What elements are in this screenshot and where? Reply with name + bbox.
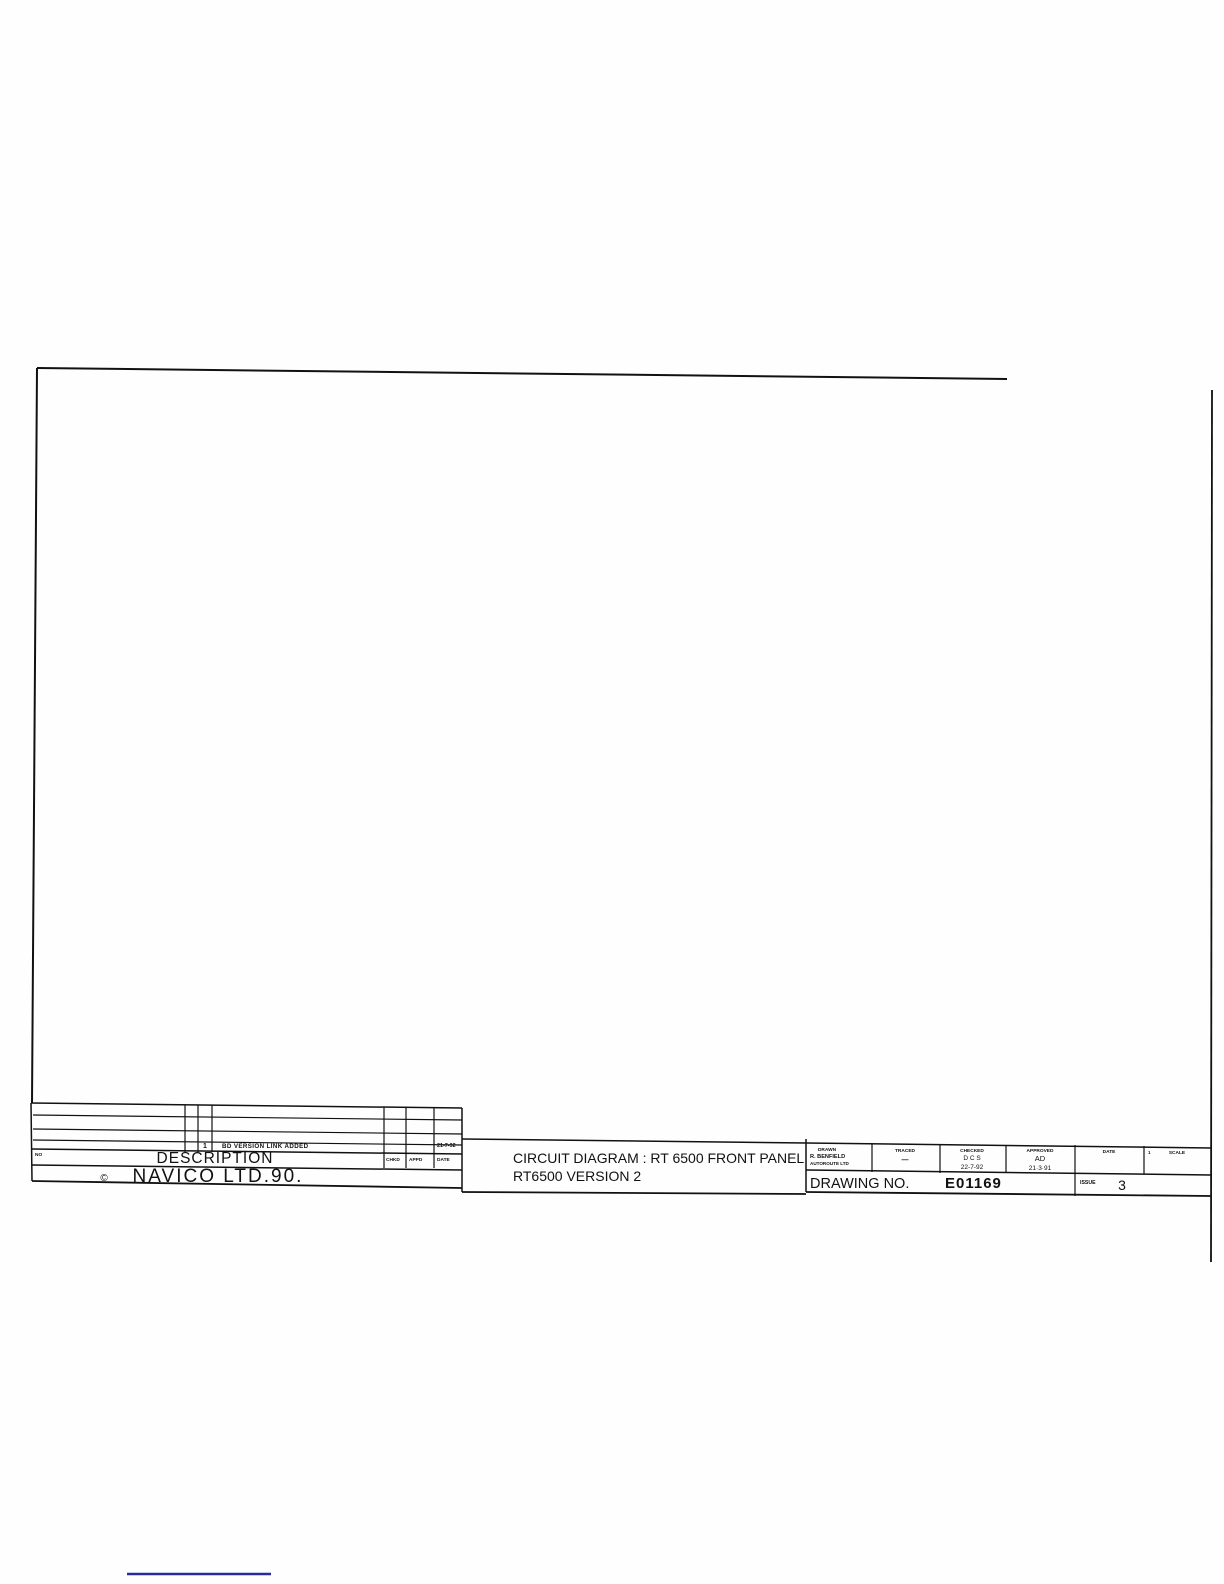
svg-text:R. BENFIELD: R. BENFIELD xyxy=(810,1154,845,1160)
svg-text:NO: NO xyxy=(35,1152,42,1158)
svg-text:D C S: D C S xyxy=(963,1155,981,1162)
approval table xyxy=(806,1143,1211,1148)
svg-text:3: 3 xyxy=(1118,1177,1126,1193)
blue underline artifact xyxy=(127,1573,271,1575)
svg-text:TRACED: TRACED xyxy=(895,1148,916,1154)
title block revision table xyxy=(31,1103,462,1108)
svg-text:AUTOROUTE LTD: AUTOROUTE LTD xyxy=(810,1161,850,1166)
svg-text:CHECKED: CHECKED xyxy=(960,1148,984,1154)
svg-text:DATE: DATE xyxy=(1103,1149,1117,1155)
svg-text:©: © xyxy=(100,1173,108,1184)
page border top xyxy=(37,368,1007,379)
page border left xyxy=(32,368,37,1103)
svg-text:ISSUE: ISSUE xyxy=(1080,1180,1096,1186)
svg-text:1: 1 xyxy=(203,1143,207,1150)
center title box xyxy=(462,1139,806,1143)
svg-text:CHKD: CHKD xyxy=(386,1157,400,1163)
svg-text:AD: AD xyxy=(1035,1154,1046,1163)
svg-text:22-7-92: 22-7-92 xyxy=(961,1164,984,1171)
svg-text:CIRCUIT DIAGRAM : RT 6500 FRO: CIRCUIT DIAGRAM : RT 6500 FRONT PANEL xyxy=(513,1150,804,1166)
svg-text:NAVICO LTD.90.: NAVICO LTD.90. xyxy=(133,1166,304,1187)
svg-text:—: — xyxy=(902,1157,909,1164)
svg-text:DRAWN: DRAWN xyxy=(818,1147,837,1153)
svg-text:DATE: DATE xyxy=(437,1157,451,1163)
svg-text:21-7-92: 21-7-92 xyxy=(437,1143,456,1149)
page border right xyxy=(1211,390,1212,1262)
svg-text:E01169: E01169 xyxy=(945,1175,1002,1192)
svg-text:BD VERSION LINK ADDED: BD VERSION LINK ADDED xyxy=(222,1143,309,1150)
svg-text:APPD: APPD xyxy=(409,1157,423,1163)
svg-text:21·3·91: 21·3·91 xyxy=(1029,1165,1052,1172)
svg-text:DESCRIPTION: DESCRIPTION xyxy=(157,1150,274,1167)
svg-text:DRAWING NO.: DRAWING NO. xyxy=(810,1176,909,1192)
svg-text:SCALE: SCALE xyxy=(1169,1150,1186,1156)
svg-text:RT6500 VERSION 2: RT6500 VERSION 2 xyxy=(513,1168,641,1184)
